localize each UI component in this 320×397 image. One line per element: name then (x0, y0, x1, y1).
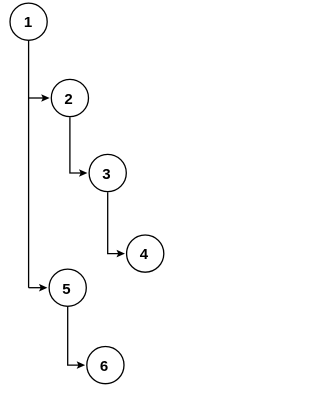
svg-text:3: 3 (102, 166, 110, 183)
svg-text:4: 4 (140, 246, 149, 263)
svg-text:2: 2 (64, 91, 72, 108)
svg-text:1: 1 (24, 14, 32, 31)
svg-text:5: 5 (62, 281, 70, 298)
svg-text:6: 6 (100, 358, 108, 375)
